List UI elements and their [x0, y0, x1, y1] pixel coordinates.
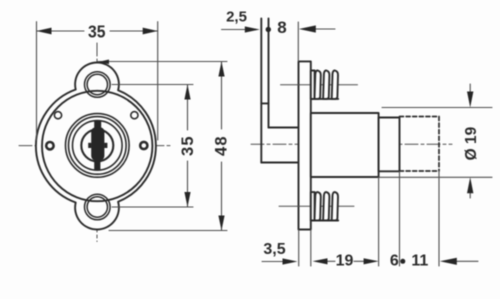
diameter 19 dimension arrows: [469, 84, 471, 198]
dimension 48: dimension line and arrows: [221, 62, 223, 231]
svg-text:35: 35: [179, 135, 197, 156]
svg-text:35: 35: [88, 21, 106, 41]
dimension 8: arrow from right: [314, 28, 335, 30]
diameter 19 extension lines: [379, 108, 492, 178]
upper left pin hole: [54, 112, 61, 119]
bottom screw: [311, 192, 338, 220]
svg-text:6: 6: [390, 252, 399, 269]
right side hole: [140, 142, 147, 149]
left side hole: [46, 142, 53, 149]
flange extension line top: [297, 22, 299, 61]
cam hidden outline: [400, 117, 440, 172]
cylinder face rings: [66, 114, 130, 178]
svg-text:11: 11: [411, 252, 428, 269]
flange outline with two lobes: [36, 63, 156, 230]
dimension 35 vertical: extension lines: [112, 85, 193, 208]
top screw centre line: [281, 84, 358, 86]
barrel: [311, 113, 379, 177]
dimension 2,5: arrow: [222, 29, 248, 31]
dimension 11: arrow from right: [456, 260, 478, 262]
front view centre line horizontal: [19, 145, 172, 147]
front view centre line vertical: [96, 43, 98, 242]
svg-text:8: 8: [277, 18, 286, 37]
svg-text:2,5: 2,5: [226, 9, 247, 26]
svg-text:48: 48: [212, 135, 230, 156]
bottom lobe hole: [85, 194, 111, 220]
upper right pin hole: [131, 112, 138, 119]
dimension 35 top: extension lines: [37, 22, 158, 140]
dimension 48: extension lines: [98, 62, 228, 231]
dimension 19 bottom: arrows and label: [316, 260, 375, 262]
dimension 6/11 dot: [400, 259, 405, 264]
dimension 35 vertical: dimension line and arrows: [187, 85, 189, 208]
svg-text:19: 19: [336, 252, 354, 269]
keyway: [88, 121, 107, 170]
top lobe hole: [85, 72, 111, 98]
top screw: [311, 70, 338, 98]
rotating rod (side view left strip): [261, 19, 268, 163]
dimension 35 top: dimension line and arrows: [37, 30, 158, 32]
hub connecting rod to lock: [261, 128, 299, 163]
bottom screw centre line: [279, 205, 354, 207]
neck: [379, 118, 400, 172]
body front face circle: [42, 91, 152, 201]
svg-text:3,5: 3,5: [263, 241, 285, 258]
dimension 8: dot: [266, 27, 271, 32]
flange plate side view: [299, 61, 311, 229]
svg-text:Ø 19: Ø 19: [463, 126, 480, 160]
bottom extension lines: [299, 171, 439, 266]
small leader arrow at top lobe: [99, 60, 109, 65]
side view centre line: [251, 143, 452, 145]
